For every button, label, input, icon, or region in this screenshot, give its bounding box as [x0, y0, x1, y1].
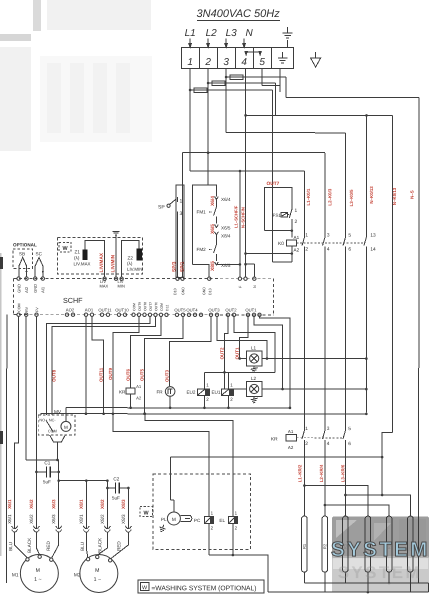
svg-text:M: M [95, 568, 99, 574]
connector chevron M1 black [33, 526, 39, 532]
contact KR 3-4 [322, 425, 325, 446]
coil KR contactor [286, 435, 297, 442]
svg-text:A2: A2 [288, 445, 294, 450]
SEC-watermark-top [0, 0, 152, 151]
wire F column down [239, 171, 241, 278]
svg-text:5uF: 5uF [112, 495, 120, 500]
tag W box washing [140, 506, 153, 516]
motor M2 [80, 554, 118, 592]
box washing probes dashed [58, 237, 143, 274]
wire fused L1 down to FS1 loop [272, 90, 274, 231]
wire PC feed from bus drop [113, 414, 209, 474]
wire AO1 column [85, 316, 87, 413]
svg-text:RED: RED [46, 541, 51, 551]
svg-text:OUT9: OUT9 [108, 367, 113, 380]
wire K0 pin6 down to KR [344, 252, 346, 425]
svg-text:SC: SC [36, 251, 43, 256]
svg-text:NC-: NC- [49, 418, 56, 422]
svg-text:L2: L2 [251, 376, 257, 381]
svg-text:OUT7: OUT7 [267, 181, 280, 187]
svg-text:FM2: FM2 [197, 247, 207, 252]
wire R5 feed pair [325, 505, 389, 516]
svg-text:13: 13 [370, 233, 376, 239]
SEC-watermark-bottom [332, 517, 429, 593]
wire OUT7 feed loop [265, 188, 292, 262]
node on N column [244, 252, 247, 255]
svg-text:1: 1 [187, 57, 193, 68]
svg-text:COM: COM [132, 303, 136, 311]
ground symbol in PE cell [278, 52, 287, 63]
svg-text:OUT11: OUT11 [98, 307, 112, 312]
node EU feed from OUT2 [223, 371, 226, 374]
svg-text:OUT11: OUT11 [99, 367, 104, 382]
svg-text:K0: K0 [278, 241, 284, 247]
svg-text:X8/5: X8/5 [221, 263, 231, 268]
fuse FU3 on L3 control tap [226, 75, 286, 80]
svg-text:N: N [246, 28, 254, 39]
svg-text:AO2: AO2 [66, 307, 75, 312]
wire M2 red lead [111, 532, 129, 559]
svg-text:GND: GND [181, 287, 185, 295]
svg-text:OUT2: OUT2 [219, 347, 224, 360]
svg-text:3N400VAC 50Hz: 3N400VAC 50Hz [197, 8, 281, 20]
svg-text:GND: GND [202, 287, 206, 295]
wire K0 pin14 N column down [365, 252, 367, 412]
SEC-kr [271, 425, 411, 516]
SEC-lamps [224, 346, 367, 403]
wire COM down to M1 blue [15, 316, 19, 528]
svg-text:OUT8: OUT8 [51, 369, 56, 382]
svg-text:PC: PC [194, 518, 201, 523]
thermal sensor FR [165, 386, 175, 408]
svg-text:X8/2: X8/2 [100, 499, 105, 509]
svg-text:Z2: Z2 [128, 255, 134, 260]
connector pin X6/5 [215, 224, 219, 227]
svg-text:D12: D12 [165, 305, 169, 311]
svg-text:X6/4: X6/4 [210, 196, 216, 206]
heater R6 [408, 516, 414, 572]
wire L2 control run down-right [245, 83, 392, 432]
svg-text:1: 1 [295, 208, 298, 214]
probe SC [35, 257, 43, 277]
wire N-S overdraw [419, 516, 429, 592]
svg-text:BLACK: BLACK [27, 537, 32, 553]
node corner L2 row [281, 388, 284, 391]
node busB AO1 [85, 412, 88, 415]
svg-text:AI1: AI1 [40, 286, 45, 293]
SEC-out7 [244, 181, 299, 262]
wire L3 control run down-right [286, 77, 419, 583]
wire N third terminal stub [246, 264, 255, 278]
probe SB [19, 257, 27, 277]
wire EU feed link [204, 371, 274, 373]
svg-text:L1–KR/2: L1–KR/2 [297, 464, 302, 482]
wire FV down to M1 black [35, 316, 37, 527]
svg-text:M1: M1 [12, 572, 19, 578]
wire terminal1 L1 down [189, 68, 191, 170]
svg-text:LIV.MIN: LIV.MIN [127, 267, 142, 272]
node MV COM junction [56, 459, 59, 462]
motor M1 [20, 554, 58, 592]
wire L1 drop to terminal 1 [189, 38, 192, 47]
SEC-wprobes [58, 231, 143, 288]
svg-text:2: 2 [204, 57, 211, 68]
wire washing PL drop [170, 457, 174, 512]
svg-text:FM1: FM1 [197, 209, 207, 214]
svg-text:OUT5: OUT5 [174, 307, 186, 312]
node R6 pair tap [344, 494, 347, 497]
node EL drop [144, 412, 147, 415]
jumper between terminal 4 and 5 [245, 52, 261, 55]
svg-text:D13: D13 [208, 288, 212, 295]
node R5 pair tap [324, 504, 327, 507]
capacitor C2 plates [115, 482, 119, 493]
SEC-midband [0, 253, 368, 583]
wire M2 black tie [59, 480, 108, 482]
svg-text:EU2: EU2 [186, 390, 195, 395]
svg-text:C2: C2 [113, 476, 119, 481]
node C2 left [106, 487, 109, 490]
svg-text:4: 4 [327, 441, 330, 447]
node star bus r4 [367, 591, 370, 594]
wire N branch down to K0 pin13 [365, 115, 367, 231]
heater R4 overdraw [365, 486, 371, 593]
node star bus r5 [388, 582, 391, 585]
svg-text:SP: SP [158, 204, 165, 210]
node busA KR A2 [129, 406, 132, 409]
switch SP enclosure [176, 185, 184, 277]
svg-text:SCHF: SCHF [63, 296, 83, 305]
svg-text:3: 3 [223, 57, 229, 68]
ground symbol above strip [283, 27, 293, 38]
svg-text:M2: M2 [74, 572, 81, 578]
svg-text:KR: KR [271, 437, 278, 443]
wire coil return bus A [66, 407, 290, 409]
svg-text:C1: C1 [44, 460, 50, 465]
heater R6 overdraw [408, 495, 414, 592]
lamp L2 [246, 382, 262, 397]
wire R6 bottom [409, 572, 411, 592]
svg-text:SP/1: SP/1 [180, 261, 186, 272]
svg-text:5uF: 5uF [43, 479, 51, 484]
SEC-k0 [296, 186, 414, 425]
node N at L1 [365, 357, 368, 360]
cascade jog OUT3 to FR [169, 316, 211, 385]
svg-text:1: 1 [305, 233, 308, 239]
svg-text:1 ~: 1 ~ [94, 577, 101, 583]
svg-text:1 ~: 1 ~ [34, 577, 41, 583]
contact FM1 [209, 201, 216, 223]
wire L2 drop to terminal 2 [207, 38, 210, 47]
svg-text:A1: A1 [294, 235, 300, 240]
washing feed run y457 [170, 456, 382, 458]
wire PE stub down [279, 69, 281, 92]
node busB N column end [365, 413, 368, 416]
wire OUT1 to lamp L1 [240, 358, 247, 360]
connector chevron M2 black [104, 526, 110, 532]
wire M1 red lead [52, 532, 59, 558]
ground reference wire [113, 231, 120, 277]
svg-text:COM: COM [17, 304, 21, 312]
svg-text:5: 5 [259, 57, 265, 68]
svg-text:L2: L2 [206, 28, 218, 39]
node busA EU2 [203, 406, 206, 409]
switch SP symbol [167, 197, 183, 278]
svg-text:N–S: N–S [410, 190, 415, 199]
svg-text:OUT7: OUT7 [149, 302, 153, 311]
node L1 lamp feed [238, 357, 241, 360]
svg-text:1: 1 [180, 198, 183, 204]
wire N jog down [382, 432, 392, 495]
svg-text:RV: RV [25, 306, 29, 312]
connector pin X6/4 [215, 196, 219, 201]
svg-text:COM: COM [160, 303, 164, 311]
capacitor C2 run [107, 487, 128, 489]
terminals SCHF bottom edge left [17, 313, 38, 316]
cascade jog OUT5 [144, 316, 183, 413]
wire EL feed from bus drop [145, 414, 233, 474]
node busA EU1 [227, 407, 230, 410]
svg-text:BLU: BLU [80, 542, 85, 551]
probe Z2 electrode [137, 248, 143, 260]
connector chevron M1 red [56, 526, 62, 532]
wire K0 pin4 down to KR [324, 252, 326, 425]
svg-text:A2: A2 [294, 248, 300, 253]
connector pin X8/5 [215, 262, 219, 265]
probe Z1 electrode [83, 249, 88, 260]
node tie right [106, 479, 109, 482]
svg-text:=WASHING SYSTEM (OPTIONAL): =WASHING SYSTEM (OPTIONAL) [151, 585, 256, 592]
equipotentiality symbol [311, 52, 321, 67]
wire X8/5 to F column [216, 263, 239, 265]
svg-text:OUT1: OUT1 [245, 308, 257, 313]
wire RV to MV COM to M1 red [26, 460, 59, 528]
cascade jog OUT2 [224, 317, 228, 390]
wire R1 bottom [303, 572, 305, 583]
node N split [244, 114, 246, 116]
wire star buses overdraw [268, 583, 429, 592]
paper edge blob 1 [0, 257, 3, 269]
svg-text:OUT10: OUT10 [115, 307, 129, 312]
node busB OUT11 [102, 412, 105, 415]
svg-text:SP/3: SP/3 [172, 261, 178, 272]
box FM motor-protector group [193, 185, 217, 278]
node R4 pair tap [303, 484, 306, 487]
svg-text:X8/3: X8/3 [121, 514, 126, 524]
node washing feed tap [381, 456, 384, 459]
svg-text:M: M [172, 517, 176, 523]
SEC-washing [18, 443, 267, 593]
node N at L2 [365, 388, 368, 391]
wire Z1 to LIV MAX terminal [85, 240, 105, 277]
wire L1 lamp to N [262, 358, 366, 360]
ground L2 lamp [251, 397, 258, 403]
SEC-strip [182, 38, 321, 68]
wire washing return run [209, 555, 268, 567]
svg-text:N–K0/13: N–K0/13 [369, 186, 374, 204]
svg-text:OUT6: OUT6 [126, 368, 131, 381]
capacitor C1 plates [47, 466, 51, 477]
tag W box [59, 242, 71, 252]
controller SCHF dashed enclosure [13, 279, 273, 315]
svg-text:R2: R2 [322, 543, 327, 549]
node K0 A2 to N [291, 252, 294, 255]
thermostat FS1 [281, 208, 292, 238]
connector chevron M1 blu [12, 526, 18, 532]
svg-text:M: M [64, 425, 68, 430]
cascade jog OUT9 [113, 316, 139, 413]
svg-text:L1: L1 [185, 28, 196, 39]
svg-text:EU1: EU1 [211, 390, 220, 395]
label LIV MAX terminal [100, 279, 109, 289]
wire L2 run to SP and K0 pin3 [183, 153, 326, 231]
svg-text:MAX: MAX [100, 283, 109, 288]
svg-text:MIN: MIN [118, 283, 125, 288]
SEC-topfan [182, 68, 419, 583]
wire KR pin6 to R3 [344, 446, 346, 516]
wire L3 drop to terminal 3 [225, 39, 228, 48]
ground L1 lamp [251, 366, 258, 372]
svg-text:EL: EL [219, 518, 225, 523]
svg-text:A1: A1 [136, 384, 142, 389]
svg-text:M: M [36, 568, 40, 574]
svg-text:OPTIONAL: OPTIONAL [13, 242, 37, 247]
svg-text:L3: L3 [226, 28, 238, 39]
wire terminal5 stub [262, 69, 280, 86]
cascade jog OUT8 to MV-NC column [46, 316, 150, 415]
valve EU1 [221, 372, 233, 408]
node F tap on L1 run [239, 170, 242, 173]
node corner L1 row [266, 357, 269, 360]
node busB OUT5 [143, 412, 146, 415]
svg-text:MV: MV [54, 409, 62, 415]
node washing return [232, 554, 235, 557]
contact K0 3-4 [323, 231, 326, 252]
wire N to K0 A2 [246, 253, 292, 255]
node C1 left [35, 471, 38, 474]
wire KR pin2 to R1 [303, 446, 305, 516]
svg-text:BLACK: BLACK [97, 537, 102, 553]
watermark SYSTEM text [331, 538, 430, 582]
svg-text:LIV/MAX: LIV/MAX [99, 252, 105, 272]
node N tap main [244, 114, 247, 117]
svg-text:X8/1: X8/1 [79, 499, 84, 509]
terminal block X0 cells 1-5 plus PE [182, 47, 294, 68]
svg-text:14: 14 [370, 247, 376, 253]
svg-text:X8/4: X8/4 [221, 234, 231, 239]
svg-text:1: 1 [305, 426, 308, 432]
svg-text:X6/1: X6/1 [7, 499, 12, 509]
svg-text:SB: SB [19, 251, 25, 256]
svg-text:GND: GND [33, 284, 38, 293]
SEC-schf [13, 277, 273, 317]
svg-text:2: 2 [305, 247, 308, 253]
SEC-motors [7, 499, 131, 592]
svg-text:AO1: AO1 [85, 307, 94, 312]
wire M1 black lead [36, 532, 39, 555]
wire terminal2 L2 down [207, 68, 209, 185]
node L2 tap for SP [207, 151, 210, 154]
wire star bus 1 [304, 582, 428, 584]
fuse FU2 on L2 control tap [208, 81, 276, 86]
svg-text:X6/3: X6/3 [51, 499, 56, 509]
capacitor C1 run [36, 471, 58, 473]
MV wedge [50, 435, 66, 442]
svg-text:LIV/MIN: LIV/MIN [110, 254, 116, 272]
fuse FU1 on L1 control tap [190, 88, 273, 93]
svg-text:SYSTEM: SYSTEM [338, 563, 422, 582]
heater R3 [343, 516, 349, 572]
node L2 fuse tap [207, 82, 210, 85]
wire N return bus B [41, 414, 366, 415]
wire RV down [25, 316, 27, 460]
wire R6 feed pair [345, 495, 410, 516]
node washing column end [381, 494, 384, 497]
svg-text:PL: PL [161, 517, 167, 522]
valve EU2 [197, 372, 209, 408]
wire PE drop to ground cell [287, 40, 289, 47]
wire Z2 to LIV MIN terminal [122, 240, 139, 277]
cascade right corner to bus [259, 317, 290, 408]
wire R4 feed pair [304, 486, 368, 517]
cascade jog OUT11 [92, 316, 104, 413]
svg-text:KR: KR [119, 389, 126, 394]
svg-text:L1–K0/1: L1–K0/1 [306, 188, 311, 205]
cascade right corner to L2 row [254, 317, 283, 390]
contact KR 1-2 [302, 425, 305, 446]
wire bottom left long run [18, 442, 20, 444]
paper edge blob 2 [0, 431, 3, 444]
coil K0 [286, 240, 296, 262]
svg-text:L3–K0/5: L3–K0/5 [349, 189, 354, 206]
contact K0 5-6 [343, 231, 346, 252]
node busB OUT9 [112, 412, 115, 415]
wire washing return to bus [267, 567, 269, 592]
wire N drop to terminal 4 [243, 39, 246, 48]
terminals SCHF bottom edge mid [65, 313, 261, 317]
node L3 fuse tap [225, 76, 228, 79]
node on F column [239, 263, 242, 266]
heater R5 [386, 516, 392, 572]
svg-text:3: 3 [327, 233, 330, 239]
svg-text:L3–KR/6: L3–KR/6 [340, 464, 345, 482]
svg-text:BLU: BLU [8, 542, 13, 551]
valve EL [228, 474, 237, 555]
connector chevron M2 blu [83, 526, 89, 532]
svg-text:RED: RED [116, 541, 121, 551]
node N stub [244, 263, 247, 266]
svg-text:L2–K0/3: L2–K0/3 [327, 188, 332, 205]
motor symbol in MV [46, 408, 71, 433]
svg-text:N: N [253, 285, 257, 288]
wire M2 blu column [85, 481, 87, 528]
wire star bus 2 [268, 591, 428, 593]
svg-text:4: 4 [327, 247, 330, 253]
wire K0 pin2 down to KR [303, 252, 305, 425]
svg-text:Z1: Z1 [75, 249, 81, 254]
svg-text:X6/3: X6/3 [51, 514, 56, 524]
wire R5 bottom [388, 572, 390, 583]
heater R5 overdraw [386, 505, 392, 583]
paper edge line [0, 253, 2, 556]
wire earth column left [6, 315, 8, 583]
lamp L1 [246, 351, 262, 366]
cascade jog OUT6 to KR coil [131, 316, 161, 387]
wire R3 bottom [344, 572, 346, 583]
node tie left [57, 479, 60, 482]
SEC-title [185, 8, 293, 39]
svg-text:N–K0/13: N–K0/13 [392, 187, 397, 205]
